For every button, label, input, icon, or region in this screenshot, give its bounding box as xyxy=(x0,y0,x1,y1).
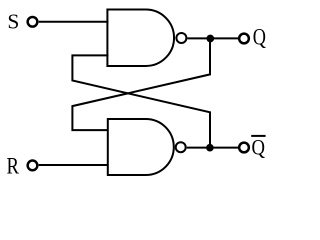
node Q junction dot xyxy=(206,35,214,43)
nand gate U2 xyxy=(108,119,174,175)
wire S to U1 pin 1 xyxy=(39,21,109,23)
svg-text:R: R xyxy=(7,152,20,179)
nand gate U1 xyxy=(107,10,174,67)
wire R to U2 pin 2 xyxy=(39,164,109,166)
wire U1 output to Q terminal xyxy=(187,37,239,39)
wire U2 output to Qbar terminal xyxy=(187,147,240,149)
U1 output bubble xyxy=(176,33,186,43)
terminal Qbar xyxy=(239,143,249,153)
terminal S xyxy=(28,17,38,27)
node Qbar junction dot xyxy=(206,144,214,152)
terminal R xyxy=(28,161,38,171)
terminal Q xyxy=(239,34,249,44)
svg-text:Q: Q xyxy=(252,136,266,160)
svg-text:Q: Q xyxy=(253,26,266,50)
label Qbar overline xyxy=(251,135,265,137)
U2 output bubble xyxy=(176,142,186,152)
svg-text:S: S xyxy=(7,9,19,33)
wire U1 pin 2 to node Qbar (left rail, diagonal, down) xyxy=(72,55,210,147)
wire node Q to U2 pin 1 (routed down, diagonal, left rail) xyxy=(72,39,210,131)
